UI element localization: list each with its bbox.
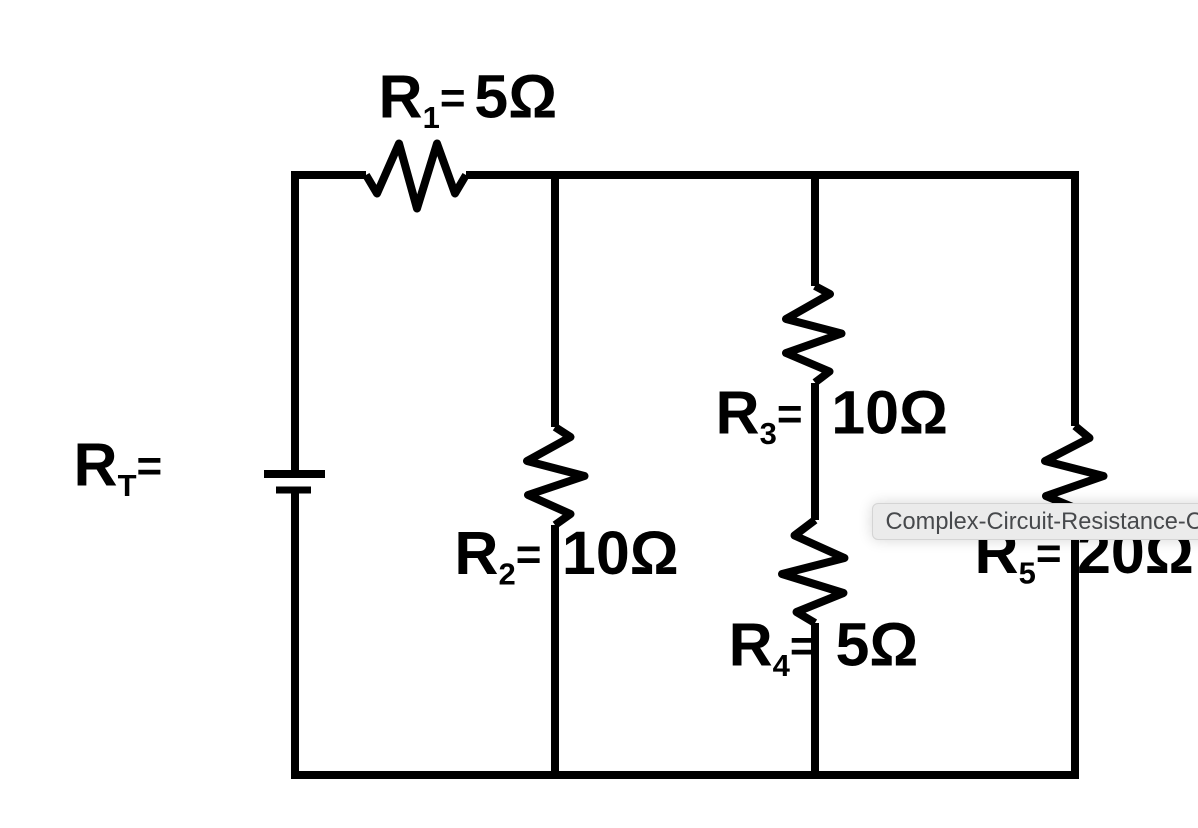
- svg-text:5Ω: 5Ω: [474, 63, 557, 131]
- svg-text:5Ω: 5Ω: [836, 610, 919, 678]
- svg-text:RT=: RT=: [74, 430, 163, 503]
- svg-text:10Ω: 10Ω: [831, 379, 948, 447]
- svg-text:R1=: R1=: [379, 63, 466, 136]
- svg-text:R2=: R2=: [454, 519, 541, 592]
- svg-text:10Ω: 10Ω: [562, 519, 679, 587]
- svg-text:R3=: R3=: [716, 379, 803, 452]
- svg-text:R4=: R4=: [729, 610, 816, 683]
